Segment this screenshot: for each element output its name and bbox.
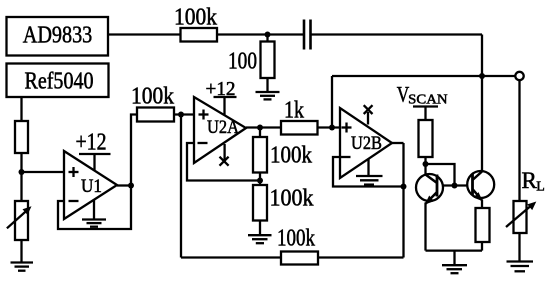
- block Ref5040: [7, 64, 109, 98]
- svg-text:L: L: [536, 180, 545, 195]
- svg-text:1k: 1k: [284, 98, 304, 124]
- resistor R4 1k: [281, 98, 318, 135]
- svg-text:Ref5040: Ref5040: [25, 69, 94, 95]
- svg-text:SCAN: SCAN: [408, 93, 447, 108]
- node junction U2B plus: [329, 125, 335, 131]
- op-amp U1: [64, 151, 117, 219]
- variable resistor VR1: [7, 201, 32, 240]
- wire mirror top to base rail: [426, 164, 455, 186]
- wire base rail: [437, 184, 473, 186]
- wire AD9833 to R1: [108, 33, 181, 35]
- label VSCAN: [397, 82, 448, 108]
- wire U2A output: [246, 126, 281, 128]
- wire U1 output up to R3: [131, 115, 137, 186]
- wire R1 to capacitor: [217, 33, 303, 35]
- wire R7 to U2B output column: [318, 256, 404, 258]
- node junction divider U2A feedback: [257, 173, 263, 186]
- node junction U2B feedback: [401, 184, 407, 190]
- op-amp U2B: [340, 108, 392, 178]
- wire U1 output: [117, 184, 131, 186]
- resistor R7 100k (bottom horizontal): [277, 226, 318, 265]
- U2B positive supply X mark: [364, 105, 373, 124]
- svg-text:100k: 100k: [270, 143, 312, 169]
- U2A +12 supply: [206, 79, 237, 115]
- wire node to U1 plus input: [22, 171, 65, 173]
- wire bottom left to R7: [181, 256, 281, 258]
- wire U1 feedback loop: [58, 186, 131, 229]
- ground mirror: [442, 251, 467, 274]
- svg-text:U1: U1: [81, 176, 102, 197]
- resistor R2 (vertical under Ref5040): [15, 121, 28, 153]
- node junction output line at x=482: [479, 73, 485, 79]
- wire capacitor to right column: [311, 33, 483, 35]
- capacitor C1: [304, 20, 311, 50]
- resistor R1 100k (top horizontal): [174, 5, 217, 42]
- variable resistor RL: [506, 201, 536, 233]
- node junction divider to U1 plus: [19, 169, 25, 175]
- wire output node horizontal line: [332, 75, 515, 77]
- wire Q1 emitter down: [424, 203, 426, 251]
- resistor R6 100k (vertical): [253, 185, 314, 221]
- ground under R6: [248, 221, 272, 244]
- resistor R3 100k (horizontal mid): [131, 84, 174, 122]
- svg-text:AD9833: AD9833: [23, 23, 93, 49]
- ground under VR1: [11, 263, 34, 271]
- svg-text:100k: 100k: [270, 186, 314, 212]
- wire mirror bottom rail: [426, 249, 483, 251]
- U2A negative supply X mark: [220, 144, 229, 166]
- resistor R9 (emitter): [476, 208, 490, 242]
- node junction U2A plus: [178, 112, 184, 118]
- wire R2 to VR1: [20, 153, 22, 201]
- resistor R5 100k (vertical): [253, 128, 312, 173]
- transistor Q2: [467, 171, 494, 201]
- resistor R8 (VSCAN vertical): [419, 120, 433, 157]
- wire Ref5040 down to R2: [20, 97, 22, 121]
- svg-text:100k: 100k: [174, 5, 217, 31]
- U1 +12 supply: [76, 130, 111, 171]
- wire U2A feedback to divider: [187, 143, 260, 181]
- node junction U1 output: [128, 183, 134, 189]
- svg-text:U2B: U2B: [351, 133, 382, 154]
- op-amp U2A: [194, 97, 246, 163]
- wire U2B output column vertical: [402, 143, 404, 258]
- ground under 100: [256, 78, 280, 99]
- wire R8 to mirror node: [424, 157, 426, 164]
- wire terminal down to RL: [518, 80, 520, 201]
- VSCAN supply terminal: [413, 107, 438, 121]
- svg-text:100k: 100k: [277, 226, 315, 252]
- svg-text:R: R: [522, 168, 538, 193]
- ground under RL: [507, 262, 534, 272]
- svg-text:100k: 100k: [131, 84, 174, 110]
- wire R9 to bottom rail: [481, 242, 483, 251]
- wire R3 to U2A plus: [174, 113, 194, 115]
- wire output node down to U2B plus: [331, 76, 333, 128]
- block AD9833: [7, 17, 109, 56]
- transistor Q1: [416, 164, 443, 205]
- svg-text:+12: +12: [76, 130, 107, 156]
- ground under U1: [82, 199, 106, 227]
- resistor 100 (vertical): [228, 35, 275, 79]
- svg-text:100: 100: [228, 49, 257, 75]
- wire VR1 to ground: [20, 240, 22, 262]
- svg-text:U2A: U2A: [207, 117, 239, 138]
- label RL: [522, 168, 545, 195]
- terminal open circle: [515, 72, 523, 80]
- ground under U2B: [356, 159, 383, 185]
- wire RL to ground: [518, 233, 520, 261]
- wire U2A plus node down: [180, 115, 182, 258]
- node junction base rail: [452, 183, 458, 189]
- node junction U2A output: [257, 125, 263, 131]
- wire U2B feedback: [333, 157, 404, 187]
- wire 1k to U2B plus: [318, 126, 341, 128]
- node junction mirror top: [423, 161, 429, 167]
- wire Q2 emitter to R9: [481, 200, 483, 209]
- wire right column down to Q2 collector: [481, 35, 483, 173]
- wire U2B output: [392, 142, 404, 144]
- node junction top wire to 100 resistor: [265, 32, 271, 38]
